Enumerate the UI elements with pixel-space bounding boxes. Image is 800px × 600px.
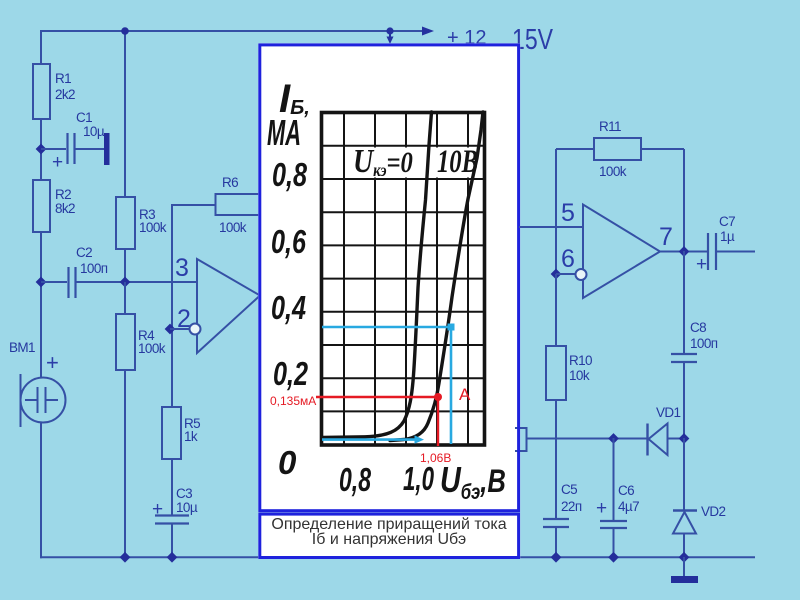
resistor R11 xyxy=(594,119,641,179)
graph grid xyxy=(322,112,484,445)
op-amp U2 xyxy=(583,205,660,299)
svg-text:VD2: VD2 xyxy=(701,504,726,519)
node VD1/C8 junction xyxy=(679,433,690,444)
svg-text:0,2: 0,2 xyxy=(273,355,308,392)
node bottom rail C6 xyxy=(608,552,619,563)
node inverting input U1 xyxy=(165,324,176,335)
inverting bubble U2 xyxy=(576,269,587,280)
svg-text:VD1: VD1 xyxy=(656,405,681,420)
capacitor C8 xyxy=(671,251,718,438)
svg-text:C2: C2 xyxy=(76,245,92,260)
capacitor C6 xyxy=(596,438,639,558)
wire input3 xyxy=(77,281,198,283)
node output U2 xyxy=(679,246,690,257)
svg-text:100k: 100k xyxy=(219,220,247,235)
svg-text:0,8: 0,8 xyxy=(272,156,307,193)
node C2/R3/R4 xyxy=(120,277,131,288)
wire pin6 xyxy=(556,273,575,275)
svg-text:+: + xyxy=(46,350,59,375)
measure line blue horizontal xyxy=(322,327,451,444)
svg-text:8k2: 8k2 xyxy=(55,201,75,216)
diode VD1 xyxy=(648,405,685,456)
wire left rail xyxy=(40,30,42,558)
panel borders xyxy=(260,45,519,558)
svg-text:C1: C1 xyxy=(76,110,92,125)
supply arrow xyxy=(422,27,434,36)
node inverting input U2 xyxy=(551,269,562,280)
wire pin5 xyxy=(519,226,583,228)
svg-text:BM1: BM1 xyxy=(9,340,35,355)
svg-text:0,6: 0,6 xyxy=(271,223,306,260)
wire inverting branch xyxy=(171,204,215,407)
svg-text:100k: 100k xyxy=(139,220,167,235)
svg-text:1,0: 1,0 xyxy=(403,460,434,497)
svg-text:2k2: 2k2 xyxy=(55,87,75,102)
label +12...15V xyxy=(447,24,554,56)
svg-text:C3: C3 xyxy=(176,486,192,501)
resistor R3 xyxy=(116,31,167,282)
op-amp U1 xyxy=(197,259,260,353)
node top rail / panel feed xyxy=(386,27,393,44)
node bottom rail C5 xyxy=(551,552,562,563)
graph x-axis labels xyxy=(339,459,506,505)
svg-text:5: 5 xyxy=(561,199,575,227)
svg-text:0: 0 xyxy=(278,444,297,481)
svg-text:0,4: 0,4 xyxy=(271,289,306,326)
svg-text:+: + xyxy=(696,254,707,275)
capacitor C5 xyxy=(543,482,582,558)
capacitor C1 xyxy=(41,110,110,173)
measure line red xyxy=(316,397,438,446)
wire output xyxy=(660,251,708,253)
svg-text:R1: R1 xyxy=(55,71,71,86)
svg-text:+: + xyxy=(152,499,163,520)
svg-text:A: A xyxy=(459,385,471,404)
node C6 tap xyxy=(608,433,619,444)
svg-text:1k: 1k xyxy=(184,429,198,444)
capacitor C2 xyxy=(41,245,108,298)
resistor R10 xyxy=(546,274,592,519)
resistor hidden at panel edge xyxy=(515,428,527,451)
microphone BM1 xyxy=(21,374,66,427)
svg-text:100п: 100п xyxy=(690,336,718,351)
resistor R1 xyxy=(33,64,75,119)
graph frame xyxy=(322,113,485,446)
resistor R4 xyxy=(116,282,166,558)
blue arrow end xyxy=(415,435,425,443)
svg-text:10k: 10k xyxy=(569,368,590,383)
svg-text:100k: 100k xyxy=(138,341,166,356)
capacitor C7 xyxy=(696,214,755,275)
resistor R5 xyxy=(162,407,200,515)
capacitor C3 xyxy=(152,486,198,558)
svg-text:+: + xyxy=(52,152,63,173)
wire rectifier rail xyxy=(527,438,648,440)
svg-text:1,06В: 1,06В xyxy=(420,451,451,465)
caption text xyxy=(271,516,506,548)
svg-text:0,8: 0,8 xyxy=(339,461,371,498)
node bottom rail R4 xyxy=(120,552,131,563)
node bottom rail C3 xyxy=(167,552,178,563)
svg-text:22п: 22п xyxy=(561,499,582,514)
svg-text:C8: C8 xyxy=(690,320,706,335)
svg-text:7: 7 xyxy=(659,223,673,251)
ground xyxy=(671,557,698,583)
svg-text:R2: R2 xyxy=(55,187,71,202)
svg-text:100k: 100k xyxy=(599,164,627,179)
red point xyxy=(434,393,442,401)
svg-text:3: 3 xyxy=(175,254,189,282)
svg-text:МА: МА xyxy=(267,112,301,153)
node blue point xyxy=(448,324,455,331)
svg-text:C7: C7 xyxy=(719,214,735,229)
curve Uke=0 xyxy=(322,112,432,438)
node bottom rail ground xyxy=(679,552,690,563)
svg-text:R10: R10 xyxy=(569,353,592,368)
wire feedback right xyxy=(641,149,684,251)
wire pin2 xyxy=(170,328,189,330)
svg-text:C5: C5 xyxy=(561,482,577,497)
node B (R2/C2/BM1) xyxy=(36,277,47,288)
svg-text:Iб и напряжения Uбэ: Iб и напряжения Uбэ xyxy=(312,531,466,548)
wire bottom rail xyxy=(40,556,755,558)
node A (R1/R2/C1) xyxy=(36,144,47,155)
wire top rail xyxy=(41,30,424,32)
resistor R6 xyxy=(216,175,260,235)
svg-text:10µ: 10µ xyxy=(176,500,198,515)
diode VD2 xyxy=(673,438,726,558)
svg-text:1µ: 1µ xyxy=(720,229,735,244)
svg-text:R11: R11 xyxy=(599,119,621,134)
svg-text:6: 6 xyxy=(561,245,575,273)
svg-text:C6: C6 xyxy=(618,483,634,498)
wire feedback left xyxy=(556,149,594,274)
svg-text:10µ: 10µ xyxy=(83,124,105,139)
curve labels band xyxy=(350,148,481,178)
svg-text:100п: 100п xyxy=(80,261,108,276)
resistor R2 xyxy=(33,180,75,232)
inverting bubble U1 xyxy=(190,324,201,335)
curve 10V xyxy=(390,112,483,441)
svg-text:0,135мА: 0,135мА xyxy=(270,394,316,408)
graph y-axis labels xyxy=(267,77,310,481)
svg-text:+: + xyxy=(596,498,607,519)
graph panel white box xyxy=(258,43,520,559)
node top rail R3 xyxy=(121,27,129,35)
svg-text:R6: R6 xyxy=(222,175,238,190)
svg-text:4µ7: 4µ7 xyxy=(618,499,639,514)
